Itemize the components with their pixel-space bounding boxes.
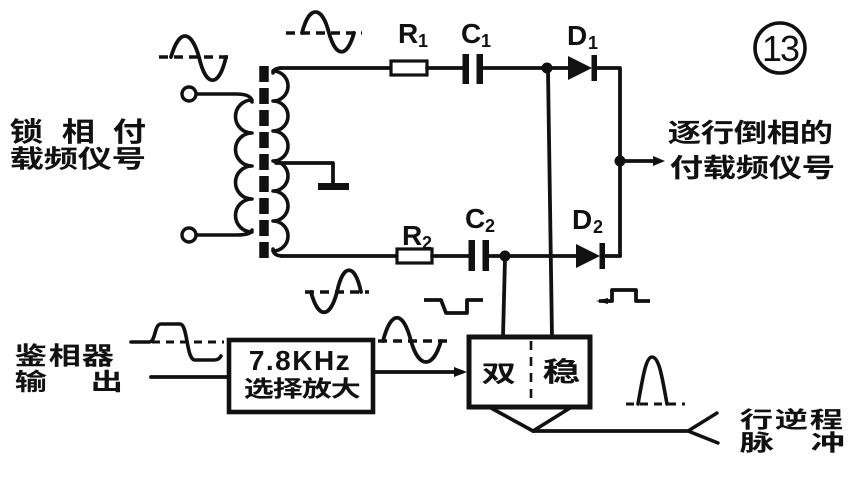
- svg-text:2: 2: [593, 217, 603, 237]
- wire: R1 to C1: [427, 66, 463, 70]
- figure number 13: [755, 23, 805, 73]
- svg-text:13: 13: [762, 28, 799, 69]
- svg-text:2: 2: [485, 216, 495, 236]
- terminal: input top: [182, 87, 196, 101]
- waveform: input sine (top-left): [159, 36, 233, 80]
- capacitor C2: [469, 240, 490, 271]
- label C2: [465, 203, 495, 236]
- waveform: 7.8kHz output sine (between blocks): [378, 318, 450, 362]
- svg-text:C: C: [461, 18, 481, 49]
- wire: node B to bistable: [503, 258, 505, 337]
- label D1: [567, 20, 598, 53]
- node B (C2 junction): [500, 251, 511, 262]
- wire: secondary top to R1: [280, 66, 391, 70]
- svg-text:2: 2: [422, 233, 432, 253]
- wire: amplifier to bistable: [373, 367, 467, 377]
- text: 选择放大: [245, 377, 360, 399]
- svg-text:D: D: [567, 20, 587, 51]
- text: 付载频仪号: [671, 155, 834, 180]
- diode D1: [568, 55, 597, 81]
- label D2: [572, 204, 603, 237]
- wire: C1 to D1: [483, 66, 568, 70]
- wire: secondary bottom to R2: [281, 254, 397, 258]
- text: 稳: [543, 358, 579, 384]
- text: 输出: [16, 370, 120, 393]
- node: output: [615, 156, 626, 167]
- waveform: retrace pulse (bell): [626, 357, 685, 404]
- transformer core: [259, 66, 269, 260]
- svg-text:R: R: [402, 220, 422, 251]
- block: bistable (双稳): [469, 337, 590, 407]
- text: 载频仪号: [11, 146, 144, 170]
- text: 行逆程: [740, 408, 842, 430]
- svg-text:7.8KHz: 7.8KHz: [249, 345, 351, 376]
- waveform: phase detector output pulse: [131, 324, 224, 360]
- wire: R2 to C2: [432, 254, 469, 258]
- svg-text:1: 1: [588, 33, 598, 53]
- wire: phase detector to amplifier: [151, 375, 229, 379]
- resistor R1: [391, 61, 427, 75]
- transformer primary winding: [196, 94, 252, 235]
- wire: bistable output funnel: [491, 408, 570, 431]
- svg-text:1: 1: [418, 31, 428, 51]
- transformer secondary winding: [273, 68, 288, 256]
- terminal: input bottom: [182, 228, 196, 242]
- wire: D2 to output bus: [605, 254, 620, 258]
- waveform: secondary bottom sine (inverted, below R2): [305, 270, 369, 312]
- text: 锁相付: [10, 118, 145, 144]
- label R2: [402, 220, 432, 253]
- text: 逐行倒相的: [668, 120, 831, 145]
- text: 脉冲: [740, 431, 843, 453]
- label C1: [461, 18, 491, 51]
- wire: output arrow: [625, 156, 665, 166]
- node A (C1/D1 junction): [542, 63, 553, 74]
- svg-text:C: C: [465, 203, 485, 234]
- text: 双: [482, 363, 514, 384]
- svg-text:D: D: [572, 204, 592, 235]
- waveform: positive pulse (right of D2): [596, 290, 650, 304]
- waveform: secondary top sine (top-center): [286, 12, 362, 52]
- text: 鉴相器: [15, 343, 113, 367]
- waveform: negative pulse (below C2): [424, 300, 483, 313]
- capacitor C1: [463, 54, 484, 84]
- wire: to horizontal-retrace output: [533, 429, 688, 433]
- svg-text:1: 1: [481, 31, 491, 51]
- ground: [318, 183, 349, 190]
- svg-text:R: R: [398, 18, 418, 49]
- wire: center tap: [276, 163, 333, 184]
- resistor R2: [397, 249, 432, 263]
- wire: output bus lower: [618, 161, 622, 256]
- label R1: [398, 18, 428, 51]
- wire: D1 to output bus: [597, 68, 620, 161]
- block: 7.8kHz selective amplifier: [229, 340, 373, 412]
- diode D2: [576, 243, 605, 269]
- wire: C2 to D2: [489, 254, 576, 258]
- wire: node A to bistable: [548, 71, 552, 337]
- wire: output fork: [688, 413, 718, 443]
